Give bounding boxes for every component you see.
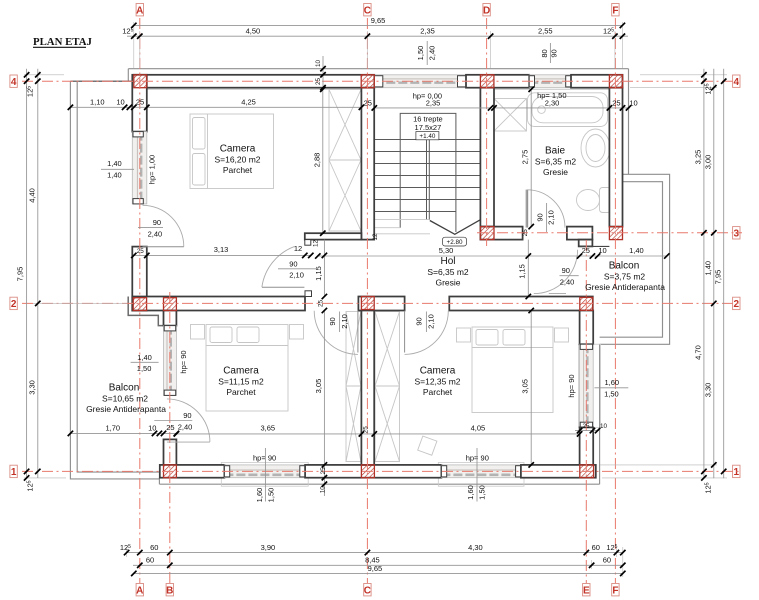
svg-text:12: 12 [313, 240, 320, 248]
marker 1 left [10, 465, 17, 478]
dim line rooms 3,65 25 4,05 [174, 424, 583, 437]
stair break chevron [430, 220, 480, 234]
window bottom-right labels [466, 448, 489, 502]
svg-text:1,70: 1,70 [105, 423, 120, 432]
svg-text:3,65: 3,65 [260, 424, 275, 433]
marker B bottom [166, 584, 173, 597]
window E labels 1,60 1,50 hp=90 [567, 374, 628, 398]
svg-text:Baie: Baie [545, 146, 565, 157]
svg-text:S=3,75 m2: S=3,75 m2 [604, 272, 646, 282]
furniture WC Baie [577, 188, 611, 213]
svg-text:1,10: 1,10 [90, 98, 105, 107]
svg-text:25: 25 [318, 300, 325, 308]
svg-text:3,30: 3,30 [27, 380, 36, 395]
door Balcon right arc [534, 250, 578, 294]
svg-text:4,05: 4,05 [471, 424, 486, 433]
door Camera TL labels 90 2,10 [278, 259, 316, 279]
window A labels 1,40 1,40 hp=1,00 [101, 155, 157, 184]
stair landing light lines [375, 220, 431, 234]
svg-text:Balcon: Balcon [609, 261, 640, 272]
svg-text:10: 10 [600, 423, 608, 430]
balcony right parapet inner [600, 182, 663, 338]
door Camera TL arc (from Hol) [262, 246, 295, 287]
furniture wardrobe left of wall C [346, 312, 361, 462]
svg-text:hp= 90: hp= 90 [567, 374, 576, 397]
door Baie arc [527, 190, 565, 228]
svg-text:90: 90 [328, 317, 337, 325]
axis 1 horizontal [22, 470, 742, 472]
door A labels 90 2,40 [138, 218, 163, 239]
svg-text:hp= 0,00: hp= 0,00 [413, 92, 442, 101]
svg-text:12: 12 [294, 244, 302, 253]
svg-text:1: 1 [11, 467, 17, 478]
eaves offset bottom-left join [158, 478, 160, 485]
stair treads [374, 140, 480, 212]
svg-text:A: A [136, 5, 143, 16]
svg-text:hp= 90: hp= 90 [179, 350, 188, 373]
svg-text:1,50: 1,50 [266, 488, 275, 503]
pier A4 [134, 75, 147, 88]
svg-text:A: A [136, 585, 143, 596]
marker C top [364, 4, 371, 17]
furniture shower Baie [494, 99, 527, 132]
svg-text:1,50: 1,50 [416, 46, 425, 61]
room label Hol [427, 256, 469, 288]
svg-text:60: 60 [146, 556, 154, 565]
pier C4 [361, 75, 374, 88]
svg-text:10: 10 [629, 98, 637, 107]
room label Camera bottom-right [414, 366, 460, 398]
svg-text:F: F [612, 5, 618, 16]
svg-text:hp= 1,50: hp= 1,50 [537, 91, 566, 100]
svg-text:1,40: 1,40 [107, 171, 122, 180]
door1 labels 90 2,10 rotated [328, 312, 349, 333]
svg-text:4,40: 4,40 [27, 188, 36, 203]
wall E upper below axis2 [580, 311, 594, 345]
svg-text:S=6,35 m2: S=6,35 m2 [535, 157, 577, 167]
svg-text:60: 60 [150, 543, 158, 552]
svg-text:8,45: 8,45 [365, 556, 380, 565]
dim line top 4,50 2,35 2,55 [122, 27, 628, 39]
dim extension lines right [600, 75, 727, 478]
svg-text:4,30: 4,30 [468, 543, 483, 552]
svg-text:2,10: 2,10 [427, 314, 436, 329]
balcony right parapet outer [600, 174, 670, 344]
dim line Hol 5,30 25 10 1,40 [315, 246, 669, 259]
window B labels 1,40 1,50 hp=90 [131, 350, 188, 373]
svg-text:9,65: 9,65 [368, 564, 383, 573]
wall axis3 D-to-Baie-door [480, 227, 522, 240]
svg-text:25: 25 [362, 426, 369, 434]
axis E vertical [585, 240, 587, 583]
svg-text:25: 25 [582, 246, 590, 255]
svg-text:Parchet: Parchet [223, 165, 253, 175]
marker C bottom [364, 584, 371, 597]
svg-text:5,30: 5,30 [439, 246, 454, 255]
dim vertical 1,15 right [518, 240, 531, 300]
dim extension lines top [134, 22, 623, 68]
door Camera TL leaf [262, 286, 305, 288]
svg-text:1,40: 1,40 [629, 246, 644, 255]
svg-text:1,60: 1,60 [604, 378, 619, 387]
window E (1.60/1.50 hp=90) [580, 344, 594, 427]
left wall lower segment [132, 247, 147, 311]
svg-text:90: 90 [562, 266, 570, 275]
door Balcon right sill line [549, 292, 566, 294]
pier C2 [361, 297, 374, 310]
window sill box bottom-right [438, 462, 524, 486]
svg-text:C: C [364, 5, 371, 16]
svg-text:90: 90 [183, 411, 191, 420]
inner face line Baie [494, 88, 609, 90]
svg-text:90: 90 [550, 49, 559, 57]
marker 1 right [733, 465, 740, 478]
axis 4 horizontal [22, 80, 742, 82]
furniture sink Baie [581, 129, 610, 167]
dim vertical 10/25 at wall C top [315, 56, 325, 90]
dim line bottom 60 3,90 4,30 60 [120, 543, 626, 555]
svg-text:S=6,35 m2: S=6,35 m2 [427, 267, 469, 277]
dim vertical 2,75 Baie [521, 87, 534, 230]
svg-text:S=12,35 m2: S=12,35 m2 [414, 377, 460, 387]
bottom wall right segment [521, 465, 596, 478]
dim extension lines left [24, 75, 127, 478]
svg-text:1,40: 1,40 [107, 159, 122, 168]
svg-text:+1.40: +1.40 [419, 133, 435, 140]
door jamb Camera TL [305, 240, 311, 246]
marker 4 left [10, 75, 17, 88]
marker F bottom [612, 584, 619, 597]
svg-text:2,35: 2,35 [420, 27, 435, 36]
eaves offset line right lower [599, 344, 601, 484]
svg-text:1,40: 1,40 [703, 261, 712, 276]
window sill box bottom-middle [221, 462, 308, 486]
svg-text:F: F [612, 585, 618, 596]
svg-text:2,10: 2,10 [289, 271, 304, 280]
stair label +2.80 [443, 237, 467, 246]
svg-text:2,40: 2,40 [178, 422, 193, 431]
room label Balcon left [86, 383, 166, 415]
svg-text:60: 60 [592, 543, 600, 552]
wall B above pier B1 [164, 439, 177, 465]
axis 3 horizontal [477, 232, 742, 234]
middle wall A-to-door1 [132, 297, 305, 311]
svg-text:7,95: 7,95 [713, 270, 722, 285]
left wall upper segment [132, 75, 147, 132]
pier D3 [480, 227, 494, 240]
svg-text:Camera: Camera [420, 366, 456, 377]
svg-text:3,13: 3,13 [214, 245, 229, 254]
dim line bottom 9,65 [131, 564, 625, 576]
svg-text:25: 25 [522, 229, 529, 237]
axis C vertical [366, 18, 368, 583]
door B labels 90 2,40 [154, 411, 192, 432]
svg-text:2,40: 2,40 [148, 229, 163, 238]
svg-text:3: 3 [734, 228, 740, 239]
svg-text:S=10,65 m2: S=10,65 m2 [102, 394, 148, 404]
middle wall door2-to-E [449, 297, 593, 311]
svg-text:Gresie Antiderapanta: Gresie Antiderapanta [585, 282, 665, 292]
svg-text:2,10: 2,10 [340, 314, 349, 329]
wall C between bottom rooms [361, 311, 374, 465]
room label Camera bottom-middle [218, 366, 264, 398]
bottom wall left segment [160, 465, 225, 478]
svg-text:1,15: 1,15 [518, 264, 527, 279]
pier F4 [609, 75, 622, 88]
door1 arc (Hol to Camera mid) [314, 311, 358, 355]
svg-text:1,50: 1,50 [137, 364, 152, 373]
top wall segment A-C [134, 75, 374, 88]
top wall segment at D [466, 75, 529, 88]
door A leaf [143, 246, 184, 248]
axis 2 horizontal [22, 302, 742, 304]
furniture bed Camera top-left [190, 114, 274, 189]
door A arc (Camera TL to balcony) [143, 205, 184, 246]
svg-text:Parchet: Parchet [423, 387, 453, 397]
svg-text:2: 2 [11, 299, 17, 310]
axis A vertical [139, 18, 141, 583]
wall B stub below axis2 [164, 311, 177, 326]
marker 3 right [733, 227, 740, 240]
pier E1 [580, 465, 594, 478]
svg-text:Gresie: Gresie [435, 278, 460, 288]
svg-text:Parchet: Parchet [226, 387, 256, 397]
svg-text:25: 25 [364, 98, 372, 107]
dim wall E 25 10 [575, 423, 607, 433]
dim line top 9,65 [131, 16, 625, 28]
dim line interior top-left 1,10 10 25 4,25 [68, 98, 364, 110]
svg-text:9,65: 9,65 [371, 16, 386, 25]
dim line right 7,95 [713, 69, 726, 478]
door2 labels 90 2,10 rotated [415, 312, 436, 333]
svg-text:E: E [583, 585, 590, 596]
svg-text:90: 90 [289, 259, 297, 268]
svg-text:D: D [483, 5, 490, 16]
svg-text:4: 4 [734, 77, 740, 88]
threshold Balcon right door [579, 245, 610, 247]
marker F top [612, 4, 619, 17]
eaves offset line right upper [628, 69, 630, 175]
svg-text:90: 90 [535, 213, 544, 221]
Baie top window labels hp=1,50 80 90 [537, 43, 566, 100]
wall E stub below axis3 [579, 240, 593, 247]
marker 2 left [10, 297, 17, 310]
pier B2 [164, 298, 177, 311]
svg-text:4: 4 [11, 77, 17, 88]
svg-text:Gresie: Gresie [543, 167, 568, 177]
pier E2 [580, 297, 593, 310]
balcony left top edge [70, 80, 132, 82]
marker A bottom [136, 584, 143, 597]
svg-text:25: 25 [136, 98, 144, 107]
dim extension lines bottom [127, 547, 623, 577]
dim line interior stair 2,35 [364, 98, 494, 110]
stair well box [400, 113, 456, 232]
room label Camera top-left [214, 144, 260, 176]
svg-text:17.5x27: 17.5x27 [415, 123, 442, 132]
pier D4 [480, 75, 494, 88]
wall Camera TL south [305, 233, 362, 239]
stair label 16 trepte [413, 115, 443, 141]
svg-text:60: 60 [603, 556, 611, 565]
svg-text:10: 10 [148, 423, 156, 432]
svg-text:7,95: 7,95 [16, 267, 25, 282]
svg-text:Camera: Camera [223, 366, 259, 377]
dim line right 3,25 4,70 [694, 69, 707, 481]
svg-text:2,10: 2,10 [547, 210, 556, 225]
top wall segment at F [571, 75, 623, 88]
svg-text:10: 10 [319, 486, 326, 494]
svg-text:S=11,15 m2: S=11,15 m2 [218, 377, 264, 387]
top opening labels hp=0,00 1,50 2,40 [413, 41, 442, 101]
svg-text:4,70: 4,70 [694, 345, 703, 360]
door B arc (Camera mid to balcony) [167, 399, 210, 442]
window bottom-middle (1.60/1.50 hp=90) [224, 465, 305, 478]
svg-text:1,60: 1,60 [255, 488, 264, 503]
svg-text:3,25: 3,25 [694, 150, 703, 165]
marker A top [136, 4, 143, 17]
axis F vertical [614, 18, 616, 583]
dim vertical 3,05 Camera right [521, 308, 534, 468]
svg-text:25: 25 [612, 98, 620, 107]
eaves offset line top [128, 68, 628, 70]
dim line interior Baie 2,30 25 10 [491, 98, 637, 110]
furniture bed Camera bottom-middle [191, 325, 304, 412]
svg-text:25: 25 [166, 423, 174, 432]
door B leaf [167, 441, 210, 443]
marker D top [483, 4, 490, 17]
wall C stair side [361, 88, 374, 240]
wall D [480, 88, 494, 227]
window B (1.40/1.50 hp=90) [164, 326, 177, 396]
top opening C-D (hp=0.00) [374, 75, 466, 88]
dim line left 7,95 [16, 69, 30, 481]
svg-text:25: 25 [320, 467, 327, 475]
axis B vertical [169, 292, 171, 583]
bottom wall middle segment [305, 465, 441, 478]
dim line left 4,40 3,30 [27, 69, 40, 478]
balcony left inner jog at axis2 [128, 297, 163, 326]
svg-text:3,00: 3,00 [703, 155, 712, 170]
furniture bathtub Baie [528, 93, 608, 127]
svg-text:2,88: 2,88 [312, 153, 321, 168]
svg-text:S=16,20 m2: S=16,20 m2 [214, 155, 260, 165]
svg-text:1,50: 1,50 [477, 485, 486, 500]
marker 4 right [733, 75, 740, 88]
furniture wardrobe right of wall C [375, 312, 400, 462]
room label Baie [535, 146, 577, 178]
svg-text:3,90: 3,90 [261, 543, 276, 552]
svg-text:25: 25 [137, 248, 145, 255]
svg-text:2,40: 2,40 [560, 278, 575, 287]
wall F [609, 88, 622, 227]
pier B1 [164, 465, 177, 478]
window bottom-right (1.60/1.50 hp=90) [441, 465, 521, 478]
svg-text:PLAN ETAJ: PLAN ETAJ [33, 36, 92, 48]
pier A2 [133, 298, 146, 311]
furniture bed Camera bottom-right [418, 327, 569, 455]
window bottom-middle labels [253, 448, 276, 502]
door Baie leaf [526, 190, 528, 228]
door1 jamb [305, 291, 312, 297]
wall E lower [580, 427, 594, 465]
svg-text:90: 90 [415, 317, 424, 325]
svg-text:25: 25 [582, 423, 590, 430]
dim vertical 2,88 at wall C [312, 87, 325, 236]
svg-text:25: 25 [315, 78, 322, 86]
dim line bottom 60 8,45 60 [133, 556, 626, 569]
svg-text:10: 10 [598, 246, 606, 255]
dim line right 3,00 1,40 3,30 [703, 69, 716, 478]
middle wall between doors [358, 297, 404, 311]
dim line balcony 1,70 10 25 [68, 423, 179, 436]
svg-text:10: 10 [315, 60, 322, 68]
svg-text:2,40: 2,40 [427, 46, 436, 61]
svg-text:hp= 90: hp= 90 [253, 454, 276, 463]
svg-text:2: 2 [734, 299, 740, 310]
balcony left parapet inner [77, 81, 160, 472]
svg-text:hp= 1,00: hp= 1,00 [148, 155, 157, 184]
svg-text:1,60: 1,60 [466, 485, 475, 500]
svg-text:12: 12 [372, 233, 379, 241]
svg-text:1: 1 [734, 467, 740, 478]
svg-text:90: 90 [153, 218, 161, 227]
axis D vertical [486, 18, 488, 246]
window A left (1.40 hp=1.00) [132, 132, 147, 204]
dim vertical 3,05 Camera mid [314, 308, 327, 496]
svg-text:2,75: 2,75 [521, 150, 530, 165]
svg-text:1,50: 1,50 [604, 389, 619, 398]
svg-text:10: 10 [116, 98, 124, 107]
room label Balcon right [585, 261, 665, 293]
door2 leaf [404, 311, 406, 353]
svg-text:Gresie Antiderapanta: Gresie Antiderapanta [86, 404, 166, 414]
furniture wardrobe Camera top-left [329, 90, 361, 232]
door2 arc (Hol to Camera right) [405, 311, 449, 355]
inner face line top rooms [147, 88, 362, 90]
svg-text:80: 80 [540, 49, 549, 57]
dim line Hol 25 3,13 12 [131, 244, 313, 258]
door1 leaf [357, 311, 359, 353]
marker E bottom [583, 584, 590, 597]
window sill box east [579, 344, 601, 427]
svg-text:Balcon: Balcon [109, 383, 140, 394]
svg-text:2,55: 2,55 [538, 27, 553, 36]
door Baie labels 90 2,10 rotated [535, 203, 555, 232]
pier C1 [361, 465, 374, 478]
svg-text:C: C [364, 585, 371, 596]
svg-text:3,05: 3,05 [521, 379, 530, 394]
window Baie top (80 hp=1.50) [529, 75, 571, 88]
svg-text:4,50: 4,50 [246, 27, 261, 36]
balcony left parapet outer [70, 81, 159, 479]
wall axis3 jamb east of Baie door [567, 227, 593, 240]
svg-text:B: B [166, 585, 173, 596]
dim vertical 1,15 left [314, 240, 327, 300]
svg-text:3,05: 3,05 [314, 379, 323, 394]
pier F3 [609, 227, 622, 240]
svg-text:3,30: 3,30 [703, 383, 712, 398]
svg-text:4,25: 4,25 [241, 98, 256, 107]
eaves offset line bottom [159, 483, 599, 485]
marker 2 right [733, 297, 740, 310]
door Balcon right labels 90 2,40 [560, 266, 579, 287]
svg-text:Hol: Hol [440, 256, 455, 267]
svg-text:Camera: Camera [220, 144, 256, 155]
title PLAN ETAJ [33, 36, 92, 48]
eaves offset line top-left corner [127, 69, 129, 82]
svg-text:1,40: 1,40 [137, 353, 152, 362]
